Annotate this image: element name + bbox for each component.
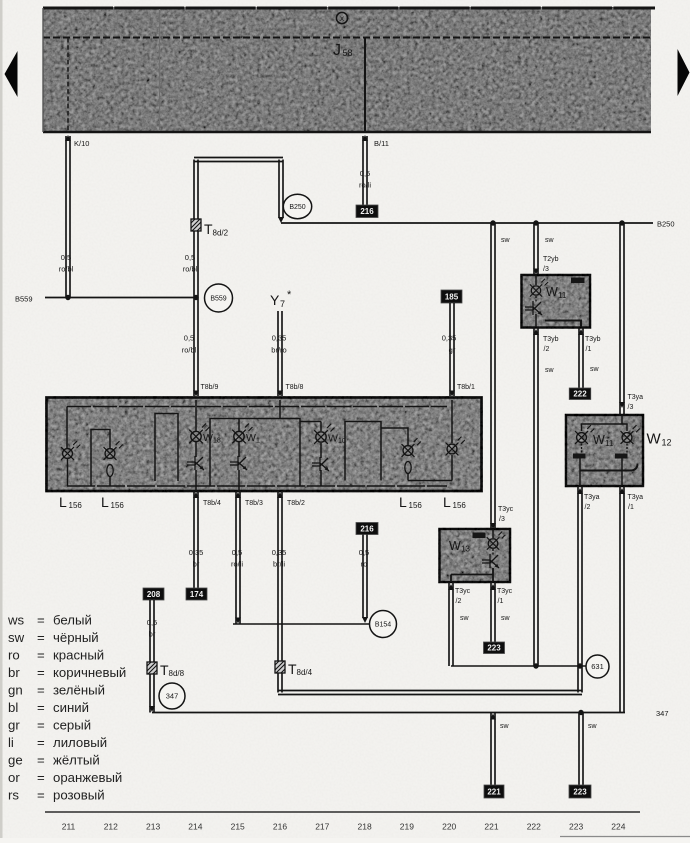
- svg-text:коричневый: коричневый: [53, 665, 126, 680]
- svg-text:0,35: 0,35: [189, 548, 204, 557]
- svg-text:T3yc: T3yc: [498, 506, 514, 513]
- svg-text:216: 216: [273, 822, 287, 832]
- svg-text:8d/2: 8d/2: [213, 229, 229, 238]
- svg-text:/2: /2: [585, 504, 591, 511]
- svg-text:T8b/8: T8b/8: [286, 384, 304, 391]
- svg-text:0,5: 0,5: [360, 169, 370, 178]
- svg-text:211: 211: [62, 822, 76, 832]
- svg-text:br/li: br/li: [273, 560, 285, 569]
- svg-text:T8b/2: T8b/2: [287, 500, 305, 507]
- svg-text:12: 12: [662, 438, 672, 448]
- svg-text:213: 213: [146, 822, 160, 832]
- svg-text:/1: /1: [498, 598, 504, 605]
- svg-text:серый: серый: [53, 718, 91, 733]
- svg-text:347: 347: [166, 692, 179, 701]
- svg-text:sw: sw: [8, 630, 25, 645]
- svg-text:0,5: 0,5: [232, 548, 242, 557]
- svg-text:T3yc: T3yc: [455, 588, 471, 595]
- svg-text:219: 219: [400, 822, 414, 832]
- svg-text:0,5: 0,5: [185, 253, 195, 262]
- svg-text:синий: синий: [53, 700, 89, 715]
- svg-text:156: 156: [111, 501, 125, 510]
- svg-text:B559: B559: [15, 295, 33, 304]
- svg-text:W: W: [593, 433, 605, 447]
- svg-text:br: br: [8, 665, 20, 680]
- svg-text:/2: /2: [544, 346, 550, 353]
- svg-text:208: 208: [147, 590, 161, 599]
- svg-text:156: 156: [453, 501, 467, 510]
- svg-text:sw: sw: [545, 367, 555, 374]
- svg-text:gr: gr: [8, 718, 20, 733]
- svg-text:18: 18: [213, 438, 221, 445]
- svg-text:224: 224: [611, 822, 625, 832]
- svg-text:=: =: [37, 770, 45, 785]
- svg-text:T3yc: T3yc: [497, 588, 513, 595]
- svg-text:ro/bl: ro/bl: [182, 346, 197, 355]
- svg-text:зелёный: зелёный: [53, 683, 105, 698]
- svg-text:T8b/4: T8b/4: [203, 500, 221, 507]
- svg-text:W: W: [328, 433, 338, 445]
- svg-text:/2: /2: [456, 598, 462, 605]
- svg-text:=: =: [37, 648, 45, 663]
- svg-text:1: 1: [256, 438, 260, 445]
- svg-text:br: br: [193, 560, 200, 569]
- svg-text:185: 185: [445, 292, 459, 301]
- svg-text:W: W: [647, 431, 662, 448]
- svg-text:=: =: [37, 718, 45, 733]
- svg-text:L: L: [443, 494, 451, 510]
- svg-text:347: 347: [656, 709, 669, 718]
- svg-text:/1: /1: [628, 504, 634, 511]
- svg-text:T3yb: T3yb: [585, 336, 601, 343]
- svg-text:214: 214: [188, 822, 202, 832]
- svg-text:7: 7: [280, 299, 285, 309]
- svg-text:/3: /3: [628, 404, 634, 411]
- svg-text:W: W: [203, 432, 213, 444]
- svg-text:=: =: [37, 788, 45, 803]
- svg-text:W: W: [449, 539, 461, 553]
- svg-text:J: J: [333, 42, 341, 59]
- svg-text:=: =: [37, 613, 45, 628]
- svg-text:T3ya: T3ya: [628, 394, 644, 401]
- svg-text:=: =: [37, 735, 45, 750]
- svg-text:T8b/1: T8b/1: [457, 384, 475, 391]
- svg-text:0,5: 0,5: [61, 253, 71, 262]
- svg-text:sw: sw: [501, 237, 511, 244]
- svg-text:чёрный: чёрный: [53, 630, 99, 645]
- svg-text:11: 11: [605, 439, 614, 448]
- svg-text:rs: rs: [8, 788, 19, 803]
- svg-text:W: W: [546, 285, 558, 299]
- svg-text:оранжевый: оранжевый: [53, 770, 122, 785]
- svg-text:ro/li: ro/li: [231, 560, 243, 569]
- svg-text:Y: Y: [270, 292, 280, 308]
- svg-text:8d/8: 8d/8: [169, 669, 185, 678]
- svg-text:174: 174: [190, 590, 204, 599]
- svg-text:221: 221: [484, 822, 498, 832]
- svg-text:T8b/9: T8b/9: [201, 384, 219, 391]
- svg-text:B/11: B/11: [374, 139, 389, 148]
- svg-text:B250: B250: [657, 220, 675, 229]
- svg-text:gr: gr: [449, 346, 456, 355]
- svg-text:0,35: 0,35: [442, 334, 457, 343]
- svg-text:631: 631: [591, 662, 604, 671]
- svg-text:222: 222: [527, 822, 541, 832]
- svg-text:ro: ro: [8, 648, 20, 663]
- svg-text:220: 220: [442, 822, 456, 832]
- svg-text:bl: bl: [8, 700, 18, 715]
- svg-text:=: =: [37, 683, 45, 698]
- svg-text:W: W: [246, 432, 256, 444]
- svg-text:8d/4: 8d/4: [297, 668, 313, 677]
- svg-text:0,5: 0,5: [359, 548, 369, 557]
- svg-text:0,35: 0,35: [272, 334, 287, 343]
- svg-text:0,35: 0,35: [272, 548, 287, 557]
- svg-text:T3ya: T3ya: [584, 494, 600, 501]
- svg-text:or: or: [8, 770, 20, 785]
- svg-text:T2yb: T2yb: [543, 256, 559, 263]
- svg-text:222: 222: [573, 390, 587, 399]
- svg-text:=: =: [37, 700, 45, 715]
- svg-text:216: 216: [360, 524, 374, 533]
- svg-text:ro: ro: [361, 560, 368, 569]
- svg-text:58: 58: [343, 48, 353, 58]
- svg-text:156: 156: [69, 501, 83, 510]
- svg-text:T8b/3: T8b/3: [245, 500, 263, 507]
- svg-text:sw: sw: [588, 723, 598, 730]
- svg-text:B559: B559: [210, 296, 226, 303]
- svg-text:ws: ws: [7, 613, 25, 628]
- svg-text:216: 216: [360, 207, 374, 216]
- svg-text:0,5: 0,5: [147, 618, 157, 627]
- svg-text:x: x: [340, 14, 344, 23]
- svg-text:11: 11: [558, 291, 567, 300]
- svg-text:ro/li: ro/li: [359, 181, 371, 190]
- svg-text:/1: /1: [586, 346, 592, 353]
- svg-text:=: =: [37, 630, 45, 645]
- svg-text:жёлтый: жёлтый: [53, 753, 100, 768]
- svg-text:K/10: K/10: [74, 139, 89, 148]
- svg-text:L: L: [399, 494, 407, 510]
- svg-text:B250: B250: [289, 204, 305, 211]
- svg-text:218: 218: [358, 822, 372, 832]
- svg-text:sw: sw: [545, 237, 555, 244]
- svg-text:br/ro: br/ro: [271, 346, 286, 355]
- svg-text:br: br: [149, 630, 156, 639]
- svg-text:ro/bl: ro/bl: [59, 265, 74, 274]
- svg-text:лиловый: лиловый: [53, 735, 107, 750]
- svg-text:gn: gn: [8, 683, 23, 698]
- svg-text:sw: sw: [500, 723, 510, 730]
- svg-text:L: L: [59, 494, 67, 510]
- svg-text:белый: белый: [53, 613, 92, 628]
- svg-text:221: 221: [487, 787, 501, 796]
- svg-text:223: 223: [569, 822, 583, 832]
- svg-text:T3ya: T3ya: [628, 494, 644, 501]
- svg-text:/3: /3: [543, 266, 549, 273]
- svg-text:223: 223: [573, 787, 587, 796]
- svg-text:ro/bl: ro/bl: [183, 265, 198, 274]
- svg-text:156: 156: [409, 501, 423, 510]
- svg-text:sw: sw: [501, 615, 511, 622]
- svg-text:ge: ge: [8, 753, 23, 768]
- svg-text:212: 212: [104, 822, 118, 832]
- svg-text:*: *: [287, 289, 292, 301]
- svg-text:215: 215: [231, 822, 245, 832]
- svg-text:223: 223: [487, 644, 501, 653]
- svg-text:=: =: [37, 753, 45, 768]
- svg-text:13: 13: [461, 545, 470, 554]
- svg-text:0,5: 0,5: [184, 334, 194, 343]
- svg-text:217: 217: [315, 822, 329, 832]
- svg-text:L: L: [101, 494, 109, 510]
- svg-text:красный: красный: [53, 648, 104, 663]
- svg-text:li: li: [8, 735, 14, 750]
- svg-text:T3yb: T3yb: [543, 336, 559, 343]
- svg-text:B154: B154: [375, 622, 391, 629]
- svg-text:sw: sw: [460, 615, 470, 622]
- svg-text:/3: /3: [499, 516, 505, 523]
- svg-text:sw: sw: [590, 366, 600, 373]
- svg-text:розовый: розовый: [53, 788, 105, 803]
- svg-text:=: =: [37, 665, 45, 680]
